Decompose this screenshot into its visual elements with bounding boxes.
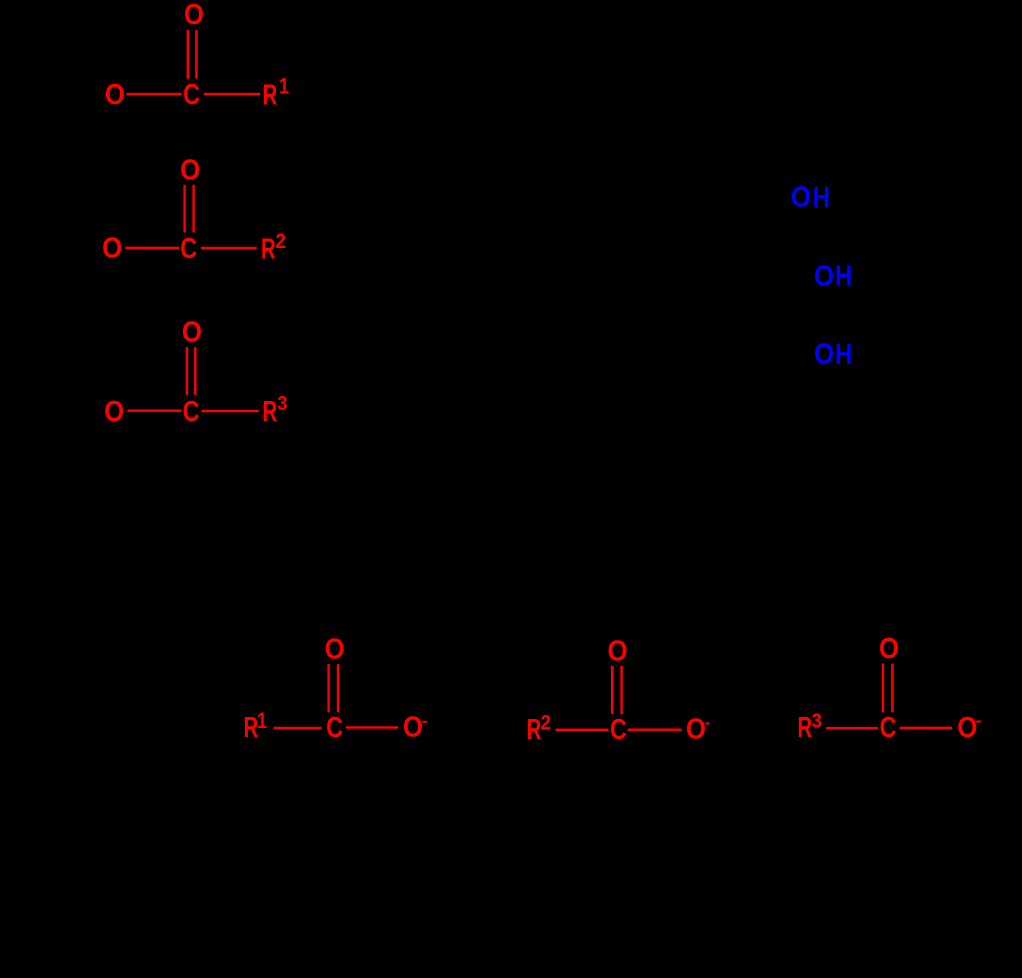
svg-text:O: O <box>957 711 977 743</box>
svg-text:1: 1 <box>279 75 289 99</box>
svg-text:1: 1 <box>257 709 267 733</box>
svg-text:O: O <box>607 634 627 666</box>
svg-text:C: C <box>326 711 343 744</box>
svg-text:O: O <box>184 0 204 31</box>
svg-text:2: 2 <box>275 230 285 253</box>
svg-text:O: O <box>403 710 423 742</box>
svg-text:O: O <box>686 712 706 744</box>
svg-text:O: O <box>105 78 125 110</box>
svg-text:C: C <box>880 711 897 744</box>
svg-text:R: R <box>797 711 812 743</box>
svg-text:3: 3 <box>277 392 287 415</box>
svg-text:O: O <box>879 632 899 664</box>
svg-text:C: C <box>183 395 200 428</box>
svg-text:R: R <box>244 711 259 743</box>
svg-text:C: C <box>183 78 200 111</box>
svg-text:R: R <box>261 233 276 265</box>
svg-text:C: C <box>610 713 627 746</box>
svg-text:3: 3 <box>812 709 822 732</box>
svg-text:H: H <box>835 338 852 371</box>
svg-text:H: H <box>813 181 830 214</box>
svg-text:R: R <box>262 395 277 427</box>
svg-text:C: C <box>180 232 197 265</box>
svg-text:O: O <box>814 338 834 370</box>
svg-text:R: R <box>527 713 542 745</box>
svg-text:O: O <box>180 153 200 185</box>
svg-text:O: O <box>102 231 122 263</box>
svg-text:H: H <box>835 260 852 293</box>
svg-text:O: O <box>325 632 345 664</box>
svg-text:O: O <box>104 395 124 427</box>
svg-text:R: R <box>263 79 278 111</box>
svg-text:O: O <box>814 259 834 291</box>
svg-text:O: O <box>791 180 811 212</box>
svg-text:O: O <box>182 315 202 347</box>
svg-text:2: 2 <box>540 712 550 735</box>
